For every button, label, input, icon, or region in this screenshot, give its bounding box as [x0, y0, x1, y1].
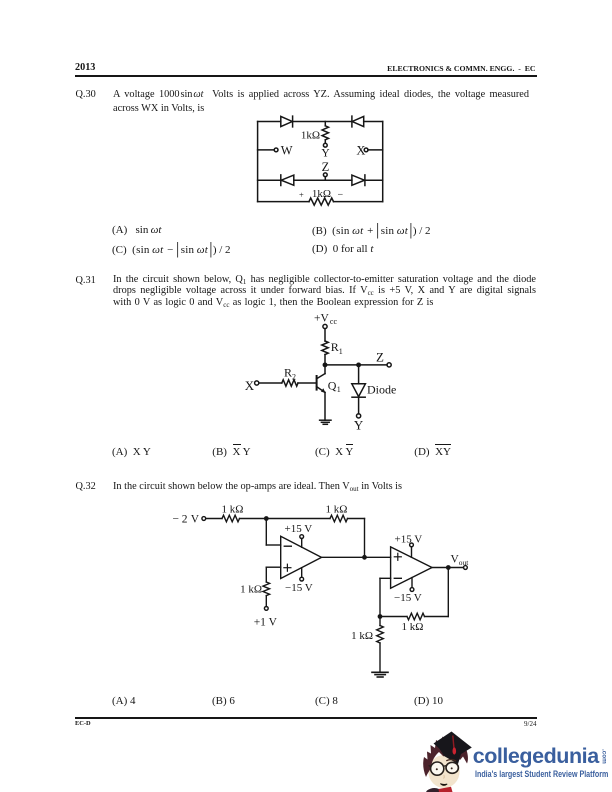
node X terminal	[255, 381, 259, 385]
resistor 1k (bottom)	[309, 198, 334, 205]
value 1 kOhm (+1V branch)	[240, 583, 262, 595]
net +1V label	[254, 616, 278, 628]
net +Vcc terminal	[323, 324, 327, 328]
svg-text:R: R	[284, 366, 292, 380]
wire node B up to -input	[380, 578, 391, 616]
transistor Q1 base bar	[316, 376, 318, 390]
Q.31 option C	[315, 446, 353, 458]
ground	[372, 672, 388, 677]
node X terminal	[364, 148, 368, 152]
Q.31 label	[76, 275, 96, 286]
svg-text:out: out	[459, 558, 470, 567]
Q.31 option A	[112, 446, 151, 458]
wire U2 output to Vout	[432, 567, 464, 569]
svg-text:1 kΩ: 1 kΩ	[326, 503, 348, 515]
wire input	[206, 518, 222, 520]
svg-text:1: 1	[337, 385, 341, 394]
wire feedback2 to node B	[380, 616, 407, 618]
svg-text:Y: Y	[321, 147, 330, 159]
svg-text:−: −	[338, 190, 344, 201]
eye left	[436, 768, 438, 770]
svg-text:+1 V: +1 V	[254, 616, 278, 628]
nose	[442, 775, 445, 778]
resistor R1	[322, 341, 328, 355]
resistor 1k feedback1	[330, 515, 347, 522]
wire node B to resistor	[379, 617, 381, 626]
U1 -15V terminal	[300, 568, 304, 581]
wire base	[259, 382, 317, 384]
svg-text:cc: cc	[330, 317, 338, 326]
CIRCUIT 1 : Q.30 diode bridge	[250, 112, 395, 210]
svg-text:Y: Y	[354, 418, 364, 433]
bowtie	[439, 787, 453, 792]
value 1 kOhm (ground branch)	[351, 630, 373, 642]
wire U1 output	[322, 556, 391, 558]
node Y terminal	[323, 143, 327, 147]
label R2	[284, 366, 296, 382]
resistor 1k to +1V	[263, 582, 270, 596]
node diode junction	[357, 363, 360, 366]
wire +input to +1V source	[266, 567, 280, 582]
svg-text:Z: Z	[322, 160, 330, 174]
node Z label	[376, 350, 384, 365]
tassel	[453, 736, 454, 749]
Q.32 label	[76, 481, 96, 492]
U2 -15V label	[394, 592, 422, 604]
svg-text:−15 V: −15 V	[394, 592, 422, 604]
Q.30 option C	[112, 243, 231, 256]
node Y label	[354, 418, 364, 433]
header year	[75, 62, 95, 73]
value 1 kOhm input	[222, 503, 244, 515]
U1 minus sign	[284, 545, 291, 547]
label Q1	[328, 378, 341, 394]
Q.32 text	[113, 481, 402, 492]
Q.30 text	[113, 88, 529, 117]
svg-text:1 kΩ: 1 kΩ	[240, 583, 262, 595]
wire node A down to inverting input	[266, 519, 280, 546]
node W terminal	[274, 148, 278, 152]
node Z label	[322, 160, 330, 174]
eyebrow	[446, 760, 456, 761]
wire lower rail	[258, 179, 383, 181]
U2 minus sign	[394, 577, 401, 579]
Q.30 option D	[312, 243, 373, 255]
wire feedback2 down	[425, 568, 449, 617]
wire left edge	[257, 122, 259, 202]
wire feedback1 to output	[348, 519, 365, 558]
node Y terminal	[357, 414, 361, 418]
resistor 1k feedback2	[407, 613, 424, 620]
resistor 1k input	[222, 515, 239, 522]
node X label	[356, 143, 365, 157]
wire right edge	[382, 122, 384, 202]
glasses left lens	[431, 762, 444, 775]
U1 -15V label	[285, 582, 313, 594]
svg-text:1: 1	[339, 347, 343, 356]
node W label	[281, 143, 293, 157]
footer right	[0, 720, 537, 728]
value label 1kOhm bottom	[312, 188, 331, 200]
svg-text:+V: +V	[314, 313, 329, 325]
cap skull part	[439, 744, 464, 764]
node A junction	[265, 517, 268, 520]
svg-text:R: R	[331, 340, 339, 354]
LOGO collegedunia	[416, 728, 480, 792]
Q.31 option B	[212, 446, 250, 458]
net +1V terminal	[264, 607, 268, 611]
svg-text:+15 V: +15 V	[395, 533, 423, 545]
net -2V terminal	[202, 517, 206, 521]
Q.32 option B	[212, 695, 235, 707]
svg-text:X: X	[245, 378, 255, 393]
svg-text:1kΩ: 1kΩ	[301, 130, 320, 142]
mouth	[440, 784, 447, 786]
glasses bridge	[444, 765, 447, 767]
value 1 kOhm feedback2	[402, 621, 424, 633]
node collector junction	[323, 363, 326, 366]
Q.32 option C	[315, 695, 338, 707]
collar left	[426, 788, 439, 792]
svg-text:Z: Z	[376, 350, 384, 365]
U1 plus sign	[284, 564, 291, 571]
svg-text:1 kΩ: 1 kΩ	[351, 630, 373, 642]
wire W stub	[258, 149, 275, 151]
diode D2 (top right)	[352, 116, 364, 127]
value label 1kOhm	[301, 130, 320, 142]
footer left	[75, 720, 91, 727]
diode D1 (top left)	[281, 116, 293, 127]
glasses right lens	[446, 762, 458, 773]
footer rule	[75, 717, 537, 718]
wire node to Z	[325, 364, 387, 366]
wire Vcc to R1	[324, 329, 326, 341]
Q.31 text	[113, 274, 536, 307]
mortarboard cap	[434, 732, 472, 760]
wire diode cathode	[358, 397, 360, 414]
Q.32 option A	[112, 695, 136, 707]
Q.31 option D	[414, 446, 451, 458]
svg-text:+: +	[299, 190, 304, 200]
ground (emitter)	[320, 420, 331, 424]
wire resistor to ground	[379, 643, 381, 672]
node B junction	[378, 615, 381, 618]
net Vout label	[451, 554, 470, 568]
wire R1 to node	[324, 355, 326, 365]
resistor R2	[282, 380, 298, 386]
U1 +15V label	[285, 523, 313, 535]
op-amp U2	[391, 547, 432, 588]
svg-text:Q: Q	[328, 378, 337, 392]
head	[428, 755, 459, 788]
Q.30 option A	[112, 224, 161, 236]
op-amp U1	[281, 536, 322, 578]
node feedback junction	[447, 566, 450, 569]
svg-text:− 2 V: − 2 V	[173, 514, 200, 526]
resistor 1k (vertical)	[322, 122, 328, 144]
eye right	[451, 767, 453, 769]
wire to node A	[240, 518, 331, 520]
resistor 1k to ground	[377, 626, 384, 644]
diode D4 (lower right)	[352, 175, 365, 186]
svg-text:2: 2	[292, 372, 296, 381]
svg-text:1kΩ: 1kΩ	[312, 188, 331, 200]
net Vout terminal	[464, 566, 468, 570]
diode D3 (lower left)	[281, 175, 294, 186]
polarity + label	[299, 190, 304, 200]
svg-text:−15 V: −15 V	[285, 582, 313, 594]
logo .com	[601, 749, 608, 764]
CIRCUIT 3 : Q.32 two op-amps	[170, 498, 480, 690]
Q.30 label	[76, 89, 96, 100]
wire top	[258, 121, 383, 123]
U2 -15V terminal	[410, 578, 414, 592]
U2 plus sign	[394, 553, 401, 560]
svg-text:+15 V: +15 V	[285, 523, 313, 535]
svg-text:1 kΩ: 1 kΩ	[402, 621, 424, 633]
Q.32 option D	[414, 695, 443, 707]
node Z terminal	[387, 363, 391, 367]
logo tagline	[475, 769, 608, 779]
wire bottom rail	[258, 201, 383, 203]
label R1	[331, 340, 343, 356]
logo wordmark	[473, 744, 599, 769]
header title	[0, 64, 536, 73]
diode D (to Y)	[352, 384, 366, 397]
svg-text:1 kΩ: 1 kΩ	[222, 503, 244, 515]
net -2V label	[173, 514, 200, 526]
transistor Q1 emitter with arrow	[317, 387, 326, 393]
U1 +15V terminal	[300, 535, 304, 548]
label Diode	[367, 383, 396, 397]
hair	[423, 736, 468, 778]
polarity - label	[338, 190, 344, 201]
glasses temple	[429, 765, 431, 766]
CIRCUIT 2 : Q.31 DTL gate	[240, 308, 405, 436]
svg-text:W: W	[281, 143, 293, 157]
wire to +1V terminal	[265, 596, 267, 607]
wire collector	[317, 365, 325, 379]
node X label	[245, 378, 255, 393]
wire emitter to ground	[324, 392, 326, 420]
svg-text:Diode: Diode	[367, 383, 396, 397]
value 1 kOhm feedback1	[326, 503, 348, 515]
wire X stub	[368, 149, 383, 151]
U2 +15V terminal	[410, 543, 414, 557]
node Y label	[321, 147, 330, 159]
wire diode anode	[358, 365, 360, 384]
node Z terminal	[323, 173, 327, 180]
header rule	[75, 75, 537, 76]
node output1 junction	[363, 556, 366, 559]
U2 +15V label	[395, 533, 423, 545]
net +Vcc label	[314, 313, 337, 326]
Q.30 option B	[312, 224, 431, 237]
